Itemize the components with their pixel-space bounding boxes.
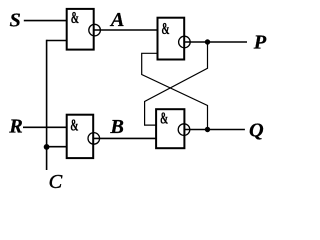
svg-text:B: B	[109, 116, 124, 138]
svg-text:S: S	[10, 9, 21, 31]
svg-text:&: &	[70, 116, 78, 135]
svg-text:C: C	[49, 171, 63, 193]
svg-text:&: &	[161, 19, 169, 38]
svg-text:Q: Q	[249, 120, 264, 142]
svg-text:A: A	[109, 9, 125, 31]
svg-text:&: &	[71, 8, 79, 27]
svg-text:R: R	[8, 115, 23, 137]
svg-text:P: P	[253, 32, 267, 54]
svg-text:&: &	[160, 109, 168, 128]
